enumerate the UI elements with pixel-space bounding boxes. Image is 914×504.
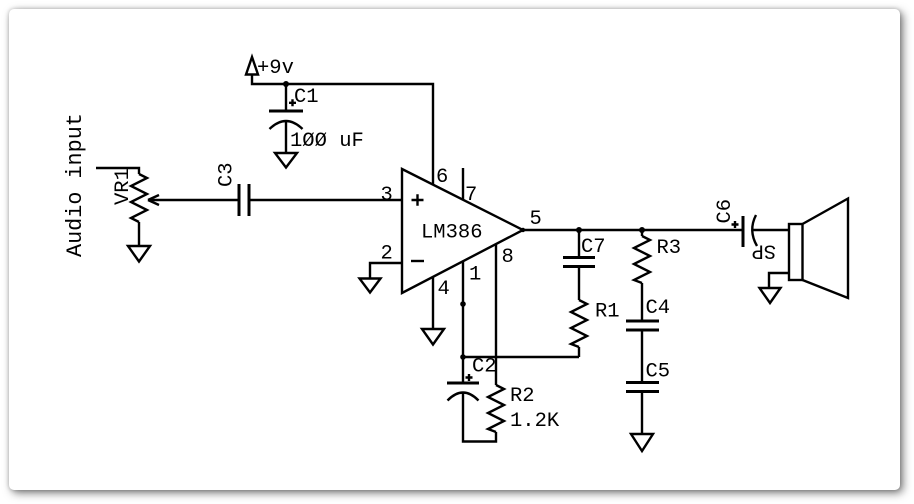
svg-text:R1: R1 <box>595 301 620 324</box>
svg-text:4: 4 <box>438 278 450 301</box>
svg-text:C1: C1 <box>294 86 319 109</box>
svg-text:3: 3 <box>381 184 393 207</box>
svg-text:1ØØ uF: 1ØØ uF <box>290 130 364 153</box>
svg-text:8: 8 <box>502 246 514 269</box>
svg-text:LM386: LM386 <box>421 222 483 245</box>
svg-text:5: 5 <box>530 208 542 231</box>
svg-text:C4: C4 <box>646 297 671 320</box>
svg-text:6: 6 <box>436 166 448 189</box>
svg-text:C3: C3 <box>216 162 239 187</box>
svg-text:1.2K: 1.2K <box>510 410 560 433</box>
svg-text:R3: R3 <box>657 237 682 260</box>
svg-text:C7: C7 <box>581 236 606 259</box>
svg-text:SP: SP <box>751 239 776 262</box>
svg-text:C5: C5 <box>646 361 671 384</box>
svg-text:+9v: +9v <box>257 57 294 80</box>
svg-text:R2: R2 <box>510 385 535 408</box>
svg-text:Audio input: Audio input <box>63 113 88 257</box>
svg-text:C6: C6 <box>714 199 737 224</box>
svg-text:C2: C2 <box>472 356 497 379</box>
svg-text:7: 7 <box>465 184 477 207</box>
svg-text:1: 1 <box>469 264 481 287</box>
